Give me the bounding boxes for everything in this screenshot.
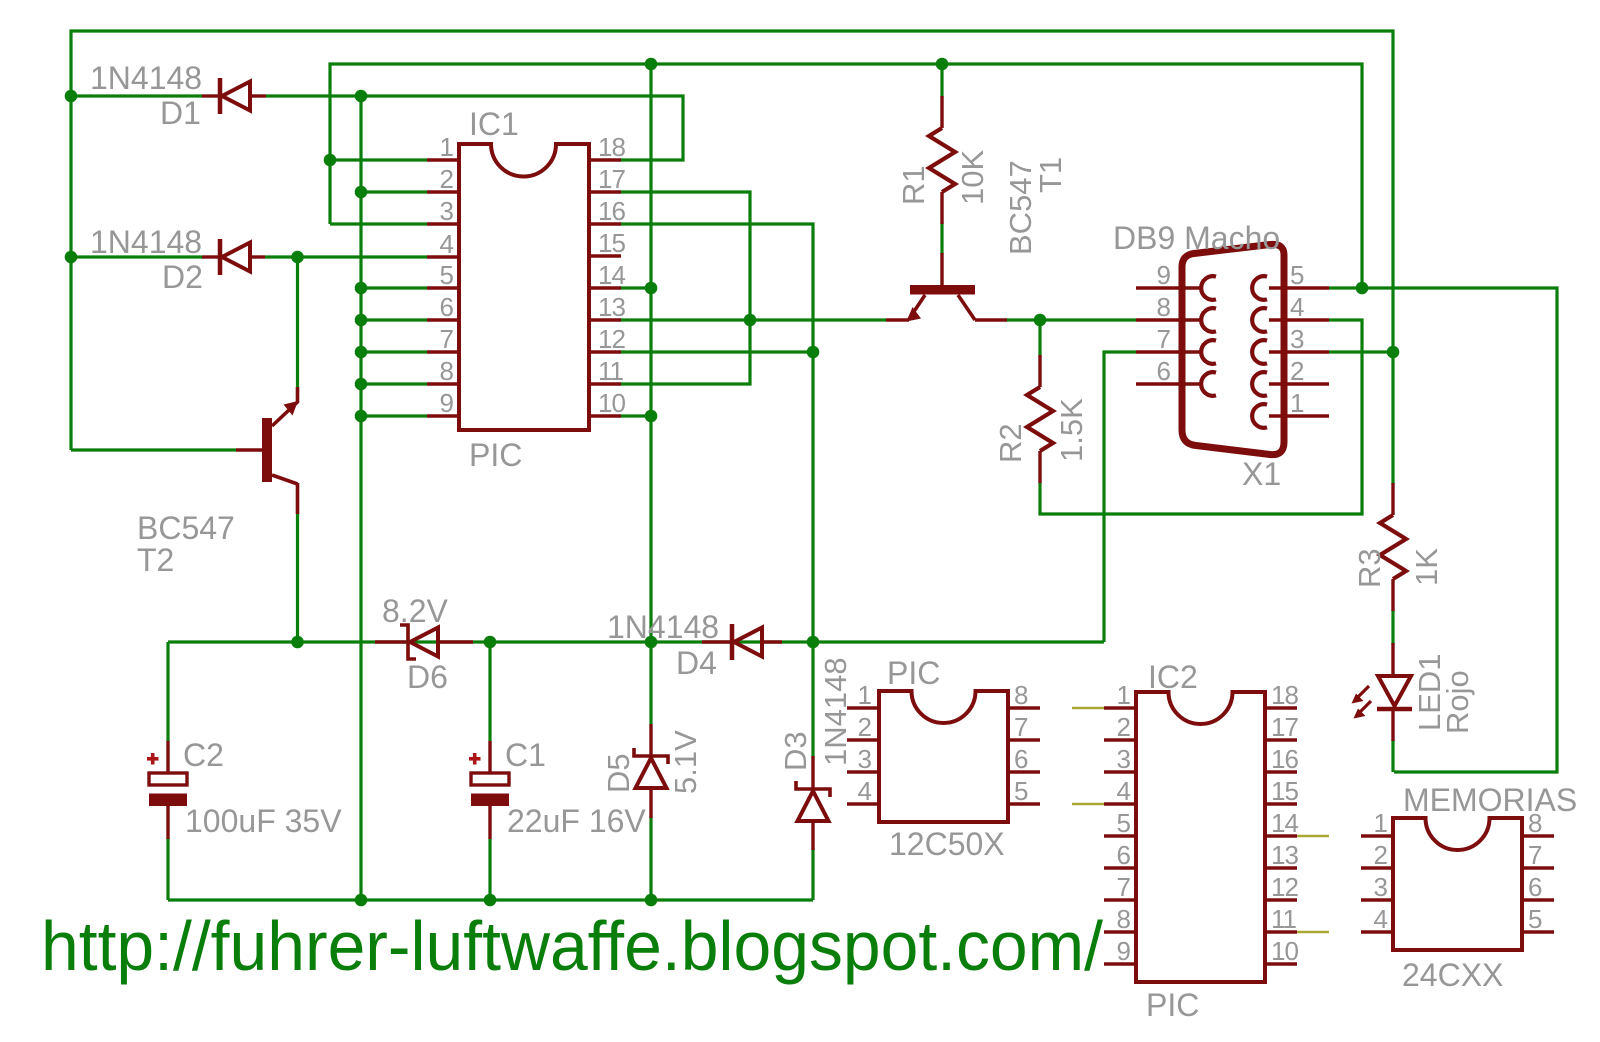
svg-text:5: 5	[1014, 776, 1028, 806]
zener D5 5.1V	[634, 724, 668, 818]
svg-text:7: 7	[1528, 840, 1542, 870]
transistor T1	[886, 253, 1007, 322]
node D3-rail642	[807, 636, 820, 649]
node pin9-x361	[355, 410, 368, 423]
svg-text:14: 14	[1271, 808, 1298, 838]
IC1 pin stubs left	[427, 160, 459, 416]
node C1-rail642	[484, 636, 497, 649]
svg-text:8: 8	[1528, 808, 1542, 838]
wire IC1 pin14	[620, 286, 651, 289]
svg-text:Rojo: Rojo	[1440, 670, 1475, 734]
svg-text:4: 4	[858, 776, 872, 806]
svg-text:11: 11	[598, 356, 624, 386]
svg-text:PIC: PIC	[469, 437, 522, 473]
wire IC1 pin13 to T1 emitter	[620, 318, 886, 321]
svg-text:X1: X1	[1242, 456, 1281, 492]
svg-text:1: 1	[1290, 388, 1304, 418]
zener D6 8.2V	[375, 625, 473, 659]
svg-text:100uF 35V: 100uF 35V	[185, 803, 342, 839]
svg-text:PIC: PIC	[1146, 987, 1199, 1023]
svg-text:1: 1	[1374, 808, 1388, 838]
svg-text:1N4148: 1N4148	[607, 609, 719, 645]
node pin10-x651	[645, 410, 658, 423]
wire C1 vertical	[488, 642, 491, 741]
svg-text:C2: C2	[183, 737, 224, 773]
IC1 pin stubs right	[589, 160, 621, 416]
svg-text:6: 6	[1157, 356, 1171, 386]
wire C2 vertical	[166, 642, 169, 741]
node T1col-R2	[1034, 314, 1047, 327]
wire olive IC2 pin14	[1297, 835, 1329, 838]
DB9 pin stubs	[1136, 288, 1329, 416]
svg-text:3: 3	[440, 196, 454, 226]
svg-text:18: 18	[598, 132, 625, 162]
IC IC1 PIC body	[459, 144, 589, 430]
svg-text:4: 4	[1117, 776, 1131, 806]
svg-text:1: 1	[858, 680, 872, 710]
24CXX pin stubs	[1361, 836, 1554, 932]
wire DB9 pin3	[1329, 350, 1393, 353]
wire IC1 pin5	[361, 286, 427, 289]
wire T1 collector to DB9 pin8	[1006, 318, 1136, 321]
svg-text:2: 2	[858, 712, 872, 742]
svg-text:MEMORIAS: MEMORIAS	[1403, 782, 1577, 818]
node gnd-C1	[484, 894, 497, 907]
diode D2	[202, 239, 265, 275]
svg-text:DB9 Macho: DB9 Macho	[1113, 220, 1280, 256]
svg-text:BC547: BC547	[137, 510, 235, 546]
svg-text:D4: D4	[676, 645, 717, 681]
node pin14-x651	[645, 282, 658, 295]
wire R1 top	[940, 64, 943, 97]
svg-text:4: 4	[440, 229, 454, 259]
12C50X pin numbers	[858, 680, 872, 806]
wire D2 right to IC1 pin4	[265, 255, 427, 258]
svg-text:1.5K: 1.5K	[1054, 398, 1089, 462]
svg-text:1N4148: 1N4148	[90, 60, 202, 96]
wire vertical x=651	[649, 64, 652, 724]
wire IC1 pin3	[330, 222, 427, 225]
node D1-left	[65, 90, 78, 103]
svg-text:IC2: IC2	[1148, 659, 1198, 695]
wire second rail y=64	[330, 64, 1362, 288]
wire DB9 pin7 down to D4 rail	[1104, 352, 1136, 642]
IC2 pin numbers	[1117, 680, 1131, 966]
svg-text:24CXX: 24CXX	[1402, 957, 1503, 993]
svg-text:5: 5	[1528, 904, 1542, 934]
svg-text:R3: R3	[1352, 548, 1387, 588]
svg-text:1N4148: 1N4148	[818, 657, 853, 766]
resistor R3 1K	[1380, 483, 1406, 611]
node D2-left	[65, 251, 78, 264]
wire IC1 pin1	[330, 158, 427, 161]
wire IC1 pin7	[361, 350, 427, 353]
svg-text:7: 7	[1117, 872, 1131, 902]
svg-text:8: 8	[1157, 292, 1171, 322]
node y64-R1	[936, 58, 949, 71]
svg-text:D1: D1	[160, 95, 201, 131]
svg-text:3: 3	[1117, 744, 1131, 774]
wire zener rail y=642	[168, 640, 1104, 643]
IC 12C50X body	[879, 691, 1008, 822]
wire D1 left	[71, 94, 202, 97]
transistor T2	[236, 387, 298, 514]
wire IC1 pin17 loop to pin11	[620, 192, 750, 384]
svg-text:7: 7	[440, 324, 454, 354]
svg-text:22uF 16V: 22uF 16V	[507, 803, 646, 839]
wire olive IC2 pin1	[1072, 707, 1104, 710]
plus sign C2	[147, 753, 159, 765]
DB9 pin numbers right	[1290, 260, 1304, 418]
svg-text:8: 8	[1117, 904, 1131, 934]
resistor R1 10K	[929, 96, 955, 224]
wire vertical x=361	[359, 96, 362, 900]
svg-text:4: 4	[1374, 904, 1388, 934]
capacitor C2	[149, 741, 187, 839]
IC1 pin numbers right	[598, 132, 625, 418]
IC IC2 PIC body	[1136, 692, 1265, 982]
wire R3 to LED	[1391, 610, 1394, 645]
svg-text:3: 3	[858, 744, 872, 774]
capacitor C1	[471, 741, 509, 839]
connector X1 DB9 body	[1182, 244, 1284, 454]
node pin3-R3	[1387, 346, 1400, 359]
svg-text:16: 16	[598, 196, 625, 226]
node D5-rail642	[645, 636, 658, 649]
12C50X pin stubs	[847, 708, 1040, 804]
svg-text:9: 9	[1117, 936, 1131, 966]
wire T2 base	[71, 448, 236, 451]
IC2 pin stubs	[1104, 708, 1297, 964]
wire olive IC2 pin4	[1072, 803, 1104, 806]
svg-text:12C50X: 12C50X	[889, 826, 1005, 862]
wire IC1 pin2	[361, 190, 427, 193]
node D1-x361	[355, 90, 368, 103]
DB9 pin numbers left	[1157, 260, 1171, 386]
svg-text:D3: D3	[778, 731, 813, 771]
svg-text:1K: 1K	[1409, 548, 1444, 586]
svg-text:2: 2	[440, 164, 454, 194]
svg-text:10: 10	[1271, 936, 1298, 966]
wire IC1 pin6	[361, 318, 427, 321]
svg-text:15: 15	[1271, 776, 1298, 806]
svg-text:8.2V: 8.2V	[382, 593, 448, 629]
wire T2 emitter up	[296, 257, 299, 387]
svg-text:5: 5	[440, 260, 454, 290]
svg-text:12: 12	[1271, 872, 1298, 902]
svg-text:13: 13	[1271, 840, 1298, 870]
svg-text:R1: R1	[896, 165, 931, 205]
svg-text:8: 8	[440, 356, 454, 386]
svg-text:http://fuhrer-luftwaffe.blogsp: http://fuhrer-luftwaffe.blogspot.com/	[41, 907, 1104, 985]
svg-text:4: 4	[1290, 292, 1304, 322]
svg-text:6: 6	[440, 292, 454, 322]
24CXX pin numbers	[1374, 808, 1388, 934]
IC 24CXX MEMORIAS body	[1393, 818, 1522, 950]
node pin8-x361	[355, 378, 368, 391]
wire D1 right to IC1 pin18	[266, 96, 683, 160]
node pin6-x361	[355, 314, 368, 327]
diode D4 1N4148	[702, 624, 782, 660]
svg-text:5: 5	[1117, 808, 1131, 838]
svg-text:D5: D5	[601, 753, 636, 793]
svg-text:18: 18	[1271, 680, 1298, 710]
plus sign C1	[469, 753, 481, 765]
svg-text:2: 2	[1374, 840, 1388, 870]
svg-text:11: 11	[1271, 904, 1297, 934]
node pin13-x750	[744, 314, 757, 327]
svg-text:R2: R2	[993, 423, 1028, 463]
node pin1-x330	[324, 154, 337, 167]
node pin12-x813	[807, 346, 820, 359]
svg-text:10K: 10K	[955, 150, 990, 205]
wire R3 top	[1391, 352, 1394, 484]
wire IC1 pin10	[620, 414, 651, 417]
svg-text:9: 9	[440, 388, 454, 418]
IC1 pin numbers left	[440, 132, 454, 418]
svg-text:7: 7	[1014, 712, 1028, 742]
wire R2 bottom loop to DB9 pin4	[1040, 320, 1362, 514]
node y64-x651	[645, 58, 658, 71]
wire LED bottom	[1391, 740, 1394, 772]
svg-text:IC1: IC1	[469, 106, 519, 142]
node gnd-D5	[645, 894, 658, 907]
svg-text:2: 2	[1290, 356, 1304, 386]
node pin5-x361	[355, 282, 368, 295]
svg-text:6: 6	[1117, 840, 1131, 870]
svg-text:D2: D2	[162, 259, 203, 295]
resistor R2 1.5K	[1027, 355, 1053, 483]
svg-text:17: 17	[598, 164, 625, 194]
svg-text:C1: C1	[505, 737, 546, 773]
node D2-T2emitter	[291, 251, 304, 264]
node pin5-x1362	[1356, 282, 1369, 295]
wire IC1 pin16 down x=813	[620, 224, 813, 758]
svg-text:2: 2	[1117, 712, 1131, 742]
wire olive IC2 pin11	[1297, 931, 1329, 934]
node pin7-x361	[355, 346, 368, 359]
node T2col-rail	[291, 636, 304, 649]
DB9 contacts right column	[1252, 276, 1267, 428]
svg-text:16: 16	[1271, 744, 1298, 774]
svg-text:5.1V: 5.1V	[668, 730, 703, 794]
svg-text:T1: T1	[1033, 157, 1068, 193]
svg-text:14: 14	[598, 260, 625, 290]
LED LED1	[1352, 643, 1413, 741]
svg-text:T2: T2	[137, 542, 174, 578]
svg-text:9: 9	[1157, 260, 1171, 290]
svg-text:1N4148: 1N4148	[90, 224, 202, 260]
wire R1 bottom	[940, 223, 943, 254]
diode D3 1N4148	[796, 756, 830, 850]
node pin2-x361	[355, 186, 368, 199]
svg-text:5: 5	[1290, 260, 1304, 290]
wire IC1 pin9	[361, 414, 427, 417]
svg-text:7: 7	[1157, 324, 1171, 354]
svg-text:1: 1	[1117, 680, 1131, 710]
svg-text:15: 15	[598, 228, 625, 258]
DB9 contacts left column	[1201, 276, 1216, 396]
wire DB9 pin5 loop to LED bottom	[1329, 288, 1557, 772]
node gnd-x361	[355, 894, 368, 907]
svg-text:1: 1	[440, 132, 454, 162]
wire T2 collector down	[296, 513, 299, 642]
diode D1	[202, 78, 266, 114]
svg-text:PIC: PIC	[887, 655, 940, 691]
svg-text:6: 6	[1528, 872, 1542, 902]
svg-text:10: 10	[598, 388, 625, 418]
wire R2 top	[1038, 320, 1041, 356]
wire D2 left	[71, 255, 202, 258]
svg-text:3: 3	[1374, 872, 1388, 902]
wire top rail y=31	[71, 31, 1393, 450]
wire IC1 pin8	[361, 382, 427, 385]
wire IC1 pin12	[620, 350, 813, 353]
svg-text:D6: D6	[407, 659, 448, 695]
wire ground rail y=900	[168, 898, 813, 901]
svg-text:3: 3	[1290, 324, 1304, 354]
svg-text:8: 8	[1014, 680, 1028, 710]
svg-text:13: 13	[598, 292, 625, 322]
svg-text:6: 6	[1014, 744, 1028, 774]
svg-text:17: 17	[1271, 712, 1298, 742]
svg-text:12: 12	[598, 324, 625, 354]
